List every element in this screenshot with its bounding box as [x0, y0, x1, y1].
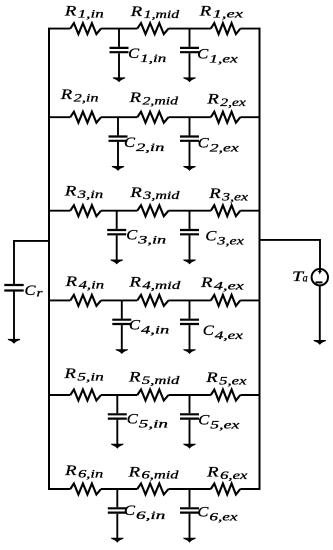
ground — [111, 444, 124, 449]
ground — [112, 166, 125, 171]
ground — [111, 538, 124, 543]
resistor R5,ex — [211, 390, 241, 401]
svg-text:2,ex: 2,ex — [220, 95, 246, 109]
wire row 3 mid-left segment — [101, 210, 137, 212]
wire row 5 mid-left segment — [101, 394, 137, 396]
capacitor C6,in — [108, 489, 127, 538]
svg-text:R: R — [205, 370, 218, 386]
capacitor C1,ex — [180, 29, 199, 78]
resistor R6,ex — [211, 484, 241, 495]
svg-text:R: R — [128, 370, 141, 386]
svg-text:6,in: 6,in — [136, 508, 165, 522]
svg-text:C: C — [197, 47, 208, 63]
svg-text:R: R — [64, 274, 77, 290]
svg-text:R: R — [206, 92, 219, 108]
wire row 1 left segment — [48, 28, 70, 30]
svg-text:1,ex: 1,ex — [213, 7, 244, 21]
ground — [8, 339, 21, 344]
wire row 3 left segment — [48, 210, 70, 212]
resistor R1,mid — [137, 23, 168, 34]
resistor R3,mid — [137, 205, 168, 216]
svg-text:C: C — [198, 136, 209, 152]
resistor R2,mid — [137, 112, 168, 123]
svg-text:6,mid: 6,mid — [142, 468, 179, 482]
svg-text:1,in: 1,in — [140, 51, 166, 65]
svg-text:r: r — [37, 286, 44, 300]
capacitor C4,in — [112, 300, 131, 349]
capacitor C1,in — [110, 29, 129, 78]
svg-text:4,mid: 4,mid — [142, 278, 180, 292]
wire Cr vertical — [13, 240, 15, 284]
svg-text:3,mid: 3,mid — [142, 188, 180, 202]
capacitor C2,in — [109, 117, 128, 166]
wire row 4 mid-right segment — [169, 299, 211, 301]
resistor R1,in — [70, 23, 101, 34]
svg-text:C: C — [126, 227, 137, 243]
ground — [183, 444, 196, 449]
svg-text:R: R — [128, 90, 141, 106]
resistor R2,in — [70, 112, 101, 123]
svg-text:C: C — [197, 505, 208, 521]
svg-text:R: R — [60, 87, 73, 103]
svg-text:C: C — [25, 283, 36, 299]
svg-text:6,ex: 6,ex — [209, 510, 238, 524]
svg-text:5,in: 5,in — [77, 370, 104, 384]
ground — [313, 340, 326, 345]
svg-text:R: R — [64, 3, 77, 19]
ground — [110, 260, 123, 265]
wire row 6 mid-left segment — [101, 488, 137, 490]
svg-text:5,ex: 5,ex — [210, 418, 240, 432]
svg-text:C: C — [128, 46, 139, 62]
svg-text:5,ex: 5,ex — [219, 374, 247, 388]
svg-text:R: R — [199, 3, 212, 19]
svg-text:1,in: 1,in — [78, 7, 104, 21]
svg-text:4,ex: 4,ex — [214, 279, 245, 293]
ground — [115, 349, 128, 354]
wire row 5 left segment — [48, 394, 70, 396]
capacitor C3,ex — [180, 211, 199, 260]
svg-text:4,ex: 4,ex — [215, 328, 244, 342]
resistor R4,ex — [211, 295, 241, 306]
svg-text:1,ex: 1,ex — [209, 52, 239, 66]
svg-text:5,mid: 5,mid — [142, 373, 180, 387]
ground — [183, 166, 196, 171]
svg-text:6,in: 6,in — [78, 467, 103, 481]
wire row 1 mid-right segment — [169, 28, 211, 30]
svg-text:2,mid: 2,mid — [143, 93, 179, 107]
svg-text:a: a — [303, 271, 308, 285]
capacitor C4,ex — [180, 300, 199, 349]
wire row 4 right segment — [240, 299, 260, 301]
resistor R6,mid — [137, 484, 168, 495]
wire Ta vertical top — [319, 239, 321, 272]
capacitor C6,ex — [180, 489, 199, 538]
svg-text:4,in: 4,in — [141, 322, 169, 336]
svg-text:3,in: 3,in — [76, 187, 103, 201]
wire stub to Cr — [14, 240, 49, 242]
svg-text:R: R — [129, 185, 142, 201]
svg-text:2,in: 2,in — [74, 90, 99, 104]
svg-text:C: C — [129, 317, 140, 333]
svg-text:C: C — [198, 413, 209, 429]
svg-text:6,ex: 6,ex — [220, 468, 248, 482]
wire row 4 left segment — [48, 299, 70, 301]
ground — [183, 260, 196, 265]
capacitor C5,in — [108, 395, 127, 444]
wire stub to Ta — [260, 239, 321, 241]
svg-text:C: C — [203, 323, 214, 339]
wire row 3 right segment — [240, 210, 260, 212]
capacitor C3,in — [107, 211, 126, 260]
ground — [183, 349, 196, 354]
wire row 1 right segment — [240, 28, 260, 30]
resistor R1,ex — [211, 23, 241, 34]
wire row 6 left segment — [48, 488, 70, 490]
right bus — [259, 28, 261, 490]
svg-text:R: R — [208, 186, 221, 202]
resistor R2,ex — [211, 112, 241, 123]
wire row 2 mid-right segment — [169, 116, 211, 118]
ground — [183, 77, 196, 82]
left bus — [48, 28, 50, 490]
wire row 5 mid-right segment — [169, 394, 211, 396]
ground — [113, 77, 126, 82]
svg-text:R: R — [206, 464, 219, 480]
wire row 2 right segment — [240, 116, 260, 118]
wire row 4 mid-left segment — [101, 299, 137, 301]
capacitor Cr — [4, 285, 23, 340]
svg-text:R: R — [127, 464, 140, 480]
capacitor C5,ex — [180, 395, 199, 444]
svg-text:2,in: 2,in — [136, 140, 165, 154]
svg-text:3,ex: 3,ex — [221, 189, 249, 203]
svg-text:R: R — [200, 275, 213, 291]
ground — [183, 538, 196, 543]
resistor R5,in — [70, 390, 101, 401]
resistor R3,in — [70, 205, 101, 216]
resistor R5,mid — [137, 390, 168, 401]
wire row 3 mid-right segment — [169, 210, 211, 212]
resistor R4,in — [70, 295, 101, 306]
wire row 2 left segment — [48, 116, 70, 118]
svg-text:R: R — [128, 274, 141, 290]
resistor R3,ex — [211, 205, 241, 216]
wire row 6 mid-right segment — [169, 488, 211, 490]
svg-text:2,ex: 2,ex — [210, 141, 240, 155]
wire row 2 mid-left segment — [101, 116, 137, 118]
wire Ta vertical bottom — [319, 285, 321, 340]
svg-text:R: R — [64, 463, 77, 479]
svg-text:C: C — [124, 135, 135, 151]
source Ta — [312, 269, 328, 285]
wire row 6 right segment — [240, 488, 260, 490]
svg-text:C: C — [124, 503, 135, 519]
svg-text:3,ex: 3,ex — [216, 233, 245, 247]
svg-text:3,in: 3,in — [137, 232, 167, 246]
wire row 5 right segment — [240, 394, 260, 396]
wire row 1 mid-left segment — [101, 28, 137, 30]
svg-text:1,mid: 1,mid — [144, 7, 180, 21]
svg-text:C: C — [205, 228, 216, 244]
resistor R4,mid — [137, 295, 168, 306]
svg-text:R: R — [130, 4, 143, 20]
svg-text:C: C — [127, 411, 138, 427]
resistor R6,in — [70, 484, 101, 495]
capacitor C2,ex — [180, 117, 199, 166]
svg-text:5,in: 5,in — [139, 416, 168, 430]
svg-text:R: R — [64, 184, 77, 200]
svg-text:R: R — [63, 366, 76, 382]
svg-text:4,in: 4,in — [79, 278, 105, 292]
